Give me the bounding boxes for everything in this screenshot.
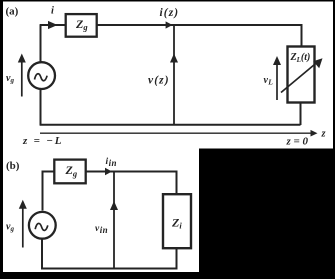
load box ZL <box>288 47 315 103</box>
wire left riser (a) <box>40 25 42 62</box>
arrow vg (a) <box>21 60 23 97</box>
svg-text:v(z): v(z) <box>148 75 170 87</box>
resistor box Zg (b) <box>54 160 85 184</box>
svg-text:z = −L: z = −L <box>22 135 63 147</box>
diagonal variable-load arrow <box>281 62 318 93</box>
wire top left (b) <box>43 172 56 211</box>
svg-text:z = 0: z = 0 <box>286 136 309 148</box>
panel (b) white area <box>3 149 199 273</box>
svg-text:i(z): i(z) <box>160 7 180 19</box>
source circle (b) <box>29 212 56 239</box>
svg-text:vin: vin <box>95 224 108 235</box>
wire top right (b) <box>85 172 177 195</box>
svg-text:iin: iin <box>106 157 117 168</box>
resistor box Zg (a) <box>66 14 97 37</box>
z axis arrowhead <box>311 130 318 137</box>
wire mid vertical v(z) line <box>173 25 175 125</box>
svg-text:i: i <box>51 6 54 17</box>
current arrowhead i_in <box>105 168 112 175</box>
arrowhead v_in up <box>110 201 118 210</box>
sine symbol (b) <box>35 223 48 230</box>
wire load bottom riser <box>300 102 302 125</box>
arrow vg (b) <box>22 206 24 248</box>
current arrowhead i at generator (a) <box>48 21 58 29</box>
wire top conductor (a) <box>40 24 302 26</box>
wire bottom (b) <box>42 239 177 269</box>
sine symbol (a) <box>35 74 48 81</box>
svg-text:(b): (b) <box>6 160 20 172</box>
arrow vL <box>276 63 278 101</box>
wire mid vertical v_in line <box>113 172 115 269</box>
arrowhead v(z) up <box>170 54 178 63</box>
wire bottom conductor (a) <box>40 124 301 126</box>
z axis line <box>40 132 312 134</box>
svg-text:ZL(t): ZL(t) <box>290 52 311 64</box>
svg-text:vL: vL <box>264 75 274 87</box>
svg-text:(a): (a) <box>6 6 19 18</box>
wire source bottom (a) <box>40 89 42 125</box>
panel (a) white area <box>3 2 333 149</box>
load box Zi <box>163 194 191 248</box>
wire load top riser <box>301 24 303 47</box>
source circle (a) <box>28 62 55 89</box>
current arrowhead i(z) <box>166 21 173 28</box>
